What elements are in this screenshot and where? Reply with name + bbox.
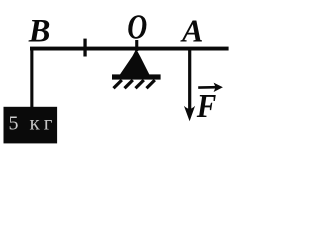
tick mark between B and O [83,39,86,57]
force F arrow shaft at A [188,50,191,110]
ground hatch stroke 3 [136,80,144,88]
ground bar under fulcrum [112,74,161,79]
tick mark at O [135,40,138,51]
vector bar arrowhead [214,83,223,92]
svg-text:кг: кг [30,111,57,135]
beam (lever bar B-O-A) [30,47,229,51]
vector bar over F [198,86,217,89]
wire: vertical hanger from B down to weight [30,47,33,108]
force F arrowhead [184,106,195,122]
ground hatch stroke 4 [147,80,155,88]
svg-text:F: F [196,88,217,125]
svg-text:O: O [127,8,147,47]
ground hatch stroke 2 [125,80,133,88]
ground hatch stroke 1 [114,80,122,88]
svg-text:5: 5 [9,112,19,134]
svg-text:A: A [180,13,203,49]
svg-text:B: B [28,14,51,50]
fulcrum triangle at O [120,49,150,75]
weight block 5 kg [4,107,58,144]
